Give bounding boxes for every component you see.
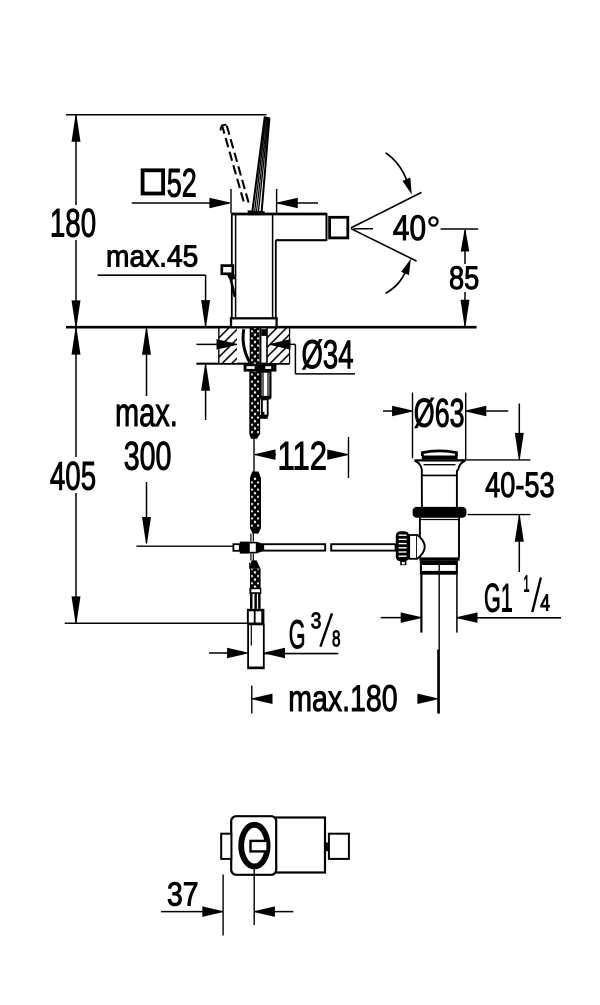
- svg-text:G: G: [289, 613, 306, 657]
- svg-text:Ø63: Ø63: [414, 392, 465, 436]
- dimension max.180: [252, 650, 438, 720]
- drain valve lower body: [419, 518, 459, 561]
- svg-text:405: 405: [50, 454, 96, 498]
- drain valve knurled knob: [396, 531, 409, 565]
- svg-text:112: 112: [278, 435, 328, 479]
- hose end ribbed section: [250, 594, 261, 609]
- dimension 40-53: [459, 404, 555, 573]
- svg-text:300: 300: [124, 434, 172, 478]
- drain valve: dimension diameter 63: [383, 392, 508, 460]
- dimension 180 top extension line: [66, 114, 267, 116]
- dimension 405 bottom extension line: [65, 622, 248, 624]
- flexible hose segment 3: [250, 560, 261, 587]
- spout nozzle tip: [330, 217, 348, 238]
- dimension G 3/8 arrows: [209, 648, 338, 657]
- flexible hose in deck hole: [243, 328, 267, 364]
- plan view: escutcheon rounded square: [231, 816, 276, 875]
- dimension diameter 34 (hole): [196, 333, 355, 377]
- svg-text:G1: G1: [484, 577, 513, 621]
- faucet spout: [276, 213, 327, 241]
- faucet body outline: [232, 214, 327, 319]
- dimension 85 (spout height): [441, 229, 480, 326]
- plan view: lever bar: [251, 841, 268, 852]
- svg-text:52: 52: [167, 162, 197, 206]
- svg-text:180: 180: [50, 201, 96, 245]
- svg-text:4: 4: [540, 589, 550, 615]
- dimension 180 (deck to spout top): [50, 115, 96, 327]
- deck slab cross-section: [196, 328, 289, 364]
- svg-text:Ø34: Ø34: [302, 333, 354, 377]
- svg-text:max.: max.: [115, 391, 178, 435]
- pop-up rod through tee: [251, 534, 253, 561]
- dimension 112: [255, 435, 349, 479]
- faucet base plate: [231, 318, 277, 327]
- svg-text:3: 3: [311, 608, 322, 634]
- mounting washer under deck: [244, 365, 277, 372]
- dimension G 1 1/4 arrows: [381, 613, 561, 622]
- svg-text:1: 1: [524, 571, 530, 597]
- drain valve collar: [420, 561, 458, 575]
- 40-degree arc arrows: [386, 153, 412, 293]
- dimension 37: [161, 867, 293, 936]
- flexible hose segment 2: [250, 472, 261, 534]
- rod reference line to max.300: [136, 545, 233, 547]
- hose end hex nut: [247, 609, 265, 625]
- pop-up rod upper segment: [253, 438, 255, 479]
- drain valve o-ring: [413, 507, 467, 518]
- svg-text:40-53: 40-53: [485, 466, 554, 505]
- drain valve plug cap: [422, 451, 458, 459]
- G 3/8 threaded tube: [248, 624, 264, 668]
- dimension square-52 (handle width): [132, 162, 318, 214]
- 40-degree spray angle rays: [351, 192, 422, 261]
- mounting stud: [260, 399, 268, 418]
- label G 3/8: [289, 608, 341, 657]
- hose end nut: [249, 588, 261, 594]
- svg-text:85: 85: [449, 260, 479, 296]
- svg-text:37: 37: [167, 875, 199, 912]
- drain valve flared head: [414, 460, 465, 507]
- plan view: handle ring: [241, 825, 267, 867]
- plan view: body rectangle: [235, 818, 325, 873]
- pop-up knob on body side: [222, 266, 235, 297]
- label 40 degrees: [393, 209, 438, 248]
- tee fitting of pop-up rod: [233, 542, 263, 554]
- dimension max.300 (hose length): [115, 328, 178, 543]
- svg-text:8: 8: [332, 626, 341, 652]
- horizontal pull rod: [263, 544, 395, 550]
- drain valve tailpipe: [421, 575, 457, 633]
- label G 1 1/4: [484, 571, 550, 621]
- svg-text:40: 40: [393, 209, 426, 248]
- dimension 405 (deck to hose end): [50, 328, 96, 623]
- countertop deck line: [66, 326, 477, 329]
- svg-text:max.180: max.180: [288, 678, 398, 719]
- drain valve centerline: [438, 561, 440, 714]
- svg-text:max.45: max.45: [106, 239, 198, 274]
- drain valve knob connector: [409, 535, 425, 559]
- plan view: spout tip tab: [329, 834, 349, 859]
- lever handle (solid position): [248, 116, 271, 215]
- lever handle (dashed alternate position): [221, 125, 250, 205]
- dimension max.45 (deck thickness): [98, 239, 210, 420]
- spout tip reference tick: [354, 228, 374, 230]
- flexible hose segment 1: [249, 372, 260, 439]
- threaded mounting shank: [260, 372, 271, 400]
- plan view: spout connector: [326, 843, 328, 852]
- plan view: left wall tab: [221, 834, 231, 859]
